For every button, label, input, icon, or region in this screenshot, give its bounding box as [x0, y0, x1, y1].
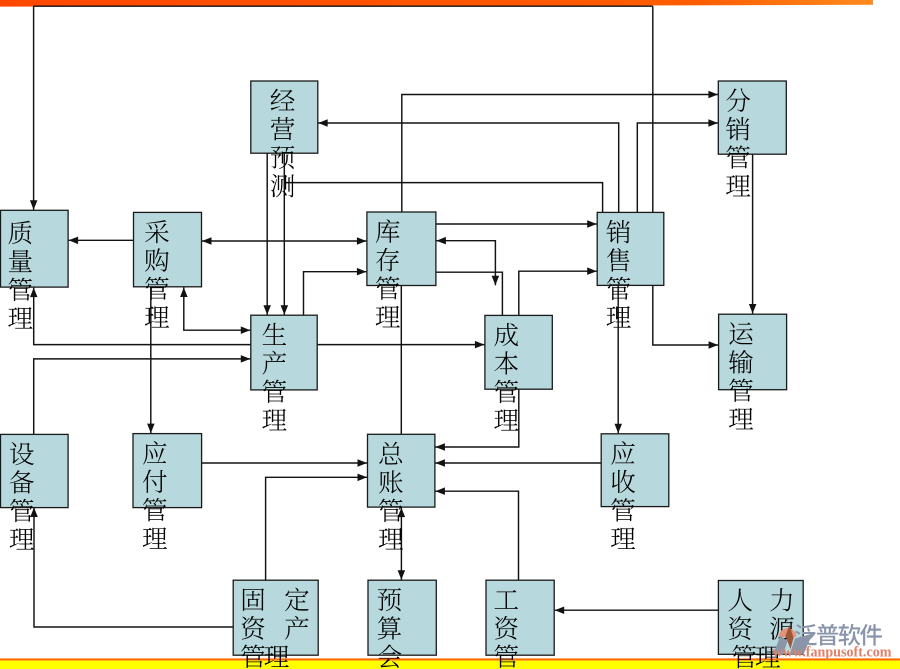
box 预算会计 [368, 580, 436, 669]
box 总账管理 [368, 434, 435, 549]
wire purchase to quality [69, 237, 134, 245]
bottom orange rule [0, 658, 900, 660]
box 固定资产管理 [233, 580, 318, 668]
box 应收管理 [601, 434, 669, 549]
wire hr to payroll [555, 607, 719, 615]
wire sales to forecast [318, 119, 619, 212]
wire title bar to transport mgmt [653, 6, 718, 349]
wire forecast to production a [263, 153, 271, 315]
box 质量管理 [1, 210, 69, 328]
wire distribution to transport [749, 154, 757, 313]
wire purchase production double [180, 288, 250, 334]
logo text 泛普软件 [795, 624, 882, 646]
box 采购管理 [134, 212, 202, 327]
wire fixed assets to equipment [30, 508, 233, 628]
box 运输管理 [719, 314, 787, 429]
wire inventory to cost [436, 272, 502, 315]
box 工资管理 [486, 580, 554, 669]
wire quality cost double [30, 288, 484, 349]
wire forecast to sales [284, 183, 602, 213]
top title bar (orange) [0, 0, 873, 7]
box 销售管理 [597, 212, 664, 327]
box 分销管理 [718, 81, 786, 196]
wire purchase to payables [147, 287, 155, 433]
wire inventory to sales [436, 220, 597, 228]
wire title bar horizontal [34, 5, 653, 7]
box 库存管理 [367, 212, 436, 327]
wire inventory to distribution [402, 91, 718, 212]
wire fixed assets to ledger [266, 474, 367, 581]
wire receivables to ledger [435, 459, 601, 467]
wire inventory right floating arrow [436, 237, 499, 285]
wire cost to sales [519, 267, 597, 315]
box 经营预测 [251, 81, 318, 197]
bottom yellow bar [0, 661, 900, 669]
wire equipment to production [34, 355, 251, 434]
wire forecast to production b [281, 153, 289, 315]
box 生产管理 [251, 315, 317, 430]
wire payables to ledger [202, 459, 368, 467]
box 成本管理 [485, 315, 552, 430]
wire sales to distribution [637, 119, 718, 212]
wire cost to ledger [435, 389, 518, 451]
wire production to inventory [304, 268, 367, 315]
logo mark (fanpu) [774, 625, 813, 656]
box 设备管理 [1, 434, 69, 549]
wire purchase to inventory double [202, 237, 366, 245]
wire ledger budget double [398, 508, 406, 580]
wire title bar to quality mgmt [30, 6, 38, 210]
wire payroll to ledger [435, 487, 518, 580]
wire inventory to ledger line [400, 286, 402, 435]
box 应付管理 [133, 434, 202, 549]
wire sales to receivables [615, 286, 623, 434]
box 人力资源管理 [718, 581, 803, 669]
svg-text:www.fanpusoft.com: www.fanpusoft.com [773, 645, 892, 661]
